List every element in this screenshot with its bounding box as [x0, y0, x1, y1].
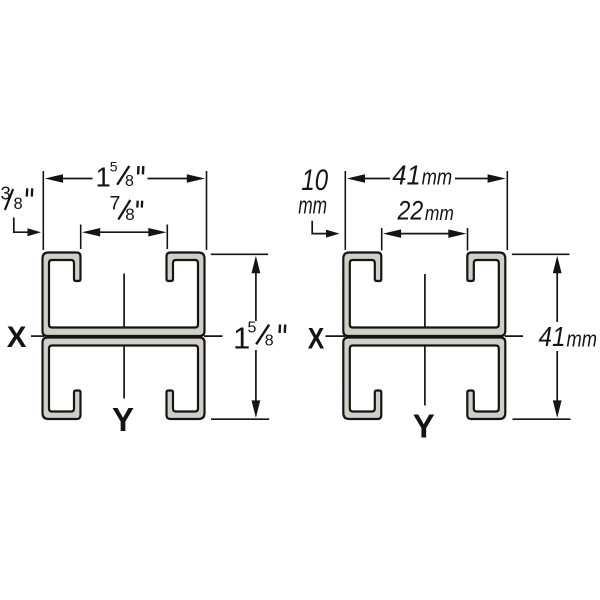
svg-text:1: 1	[96, 162, 111, 193]
svg-text:X: X	[308, 322, 325, 355]
svg-text:mm: mm	[567, 327, 598, 352]
leader from 3/8 label to lip	[14, 218, 41, 237]
extension line top of 1-5/8 height	[211, 253, 268, 255]
extension line bottom of 1-5/8 height	[211, 418, 269, 420]
dimension line 1-5/8 height upper part with up arrow	[252, 256, 261, 321]
extension line top of 41mm height	[512, 253, 570, 255]
dimension line 22mm opening with arrows both ends	[383, 229, 467, 238]
leader from 10 mm label to lip	[312, 221, 339, 238]
wire X centerline left segment (right diagram)	[326, 335, 346, 337]
label 3/8 inch lip	[1, 183, 33, 214]
svg-text:8: 8	[125, 173, 134, 190]
label 7/8 inch	[110, 193, 143, 224]
extension line outer-right of 1-5/8 width	[206, 171, 208, 250]
wire X centerline right segment	[204, 335, 223, 337]
svg-text:7: 7	[110, 193, 121, 215]
label 10 mm lip (two lines)	[298, 164, 328, 220]
label 41mm top	[392, 159, 452, 190]
svg-text:8: 8	[125, 205, 134, 224]
label 22mm	[397, 196, 454, 226]
dimension line 41mm height upper part with up arrow	[553, 256, 562, 322]
dimension line 7/8 opening with arrows both ends	[82, 228, 167, 237]
label 1-5/8 inch right	[233, 319, 285, 355]
svg-text:mm: mm	[298, 193, 327, 220]
dimension line 1-5/8 width right part with arrow	[148, 174, 206, 183]
extension line inner-right of 7/8 opening	[166, 225, 168, 250]
wire Y centerline lower segment (right diagram)	[424, 346, 426, 406]
svg-text:8: 8	[14, 195, 23, 213]
wire Y centerline upper segment (right diagram)	[424, 274, 426, 327]
svg-text:8: 8	[265, 333, 274, 350]
svg-text:mm: mm	[425, 203, 454, 225]
channel section upper C (left diagram)	[43, 253, 205, 337]
svg-text:5: 5	[248, 319, 257, 336]
label 41mm right	[539, 321, 598, 352]
extension line inner-right of 22mm opening	[467, 228, 469, 251]
dimension line 41mm height lower part with down arrow	[553, 351, 562, 418]
wire Y centerline upper segment	[123, 274, 125, 328]
channel section lower C (left diagram)	[43, 338, 205, 420]
dimension line 41mm width left part with arrow	[347, 174, 390, 183]
extension line bottom of 41mm height	[513, 418, 571, 420]
extension line outer-left of 41mm width	[344, 171, 346, 250]
wire X centerline left segment	[31, 335, 44, 337]
dimension line 1-5/8 width left part with arrow	[45, 174, 93, 183]
svg-text:X: X	[7, 321, 27, 354]
channel section lower C (right diagram)	[343, 338, 505, 420]
dimension line 1-5/8 height lower part with down arrow	[252, 350, 261, 418]
extension line inner-left of 22mm opening	[381, 228, 383, 251]
label 1-5/8 inch top	[96, 159, 144, 193]
channel section upper C (right diagram)	[343, 253, 505, 337]
extension line outer-right of 41mm width	[506, 171, 508, 250]
svg-text:mm: mm	[422, 165, 453, 190]
svg-text:Y: Y	[413, 408, 435, 445]
svg-text:41: 41	[539, 321, 566, 352]
svg-text:41: 41	[392, 159, 421, 190]
extension line inner-left of 7/8 opening	[80, 225, 82, 250]
svg-text:22: 22	[397, 196, 424, 226]
svg-text:Y: Y	[112, 401, 134, 438]
dimension line 41mm width right part with arrow	[455, 174, 506, 183]
wire Y centerline lower segment	[123, 346, 125, 399]
svg-text:5: 5	[110, 159, 118, 175]
extension line outer-left of 1-5/8 width	[42, 171, 44, 250]
wire X centerline right segment (right diagram)	[505, 335, 523, 337]
